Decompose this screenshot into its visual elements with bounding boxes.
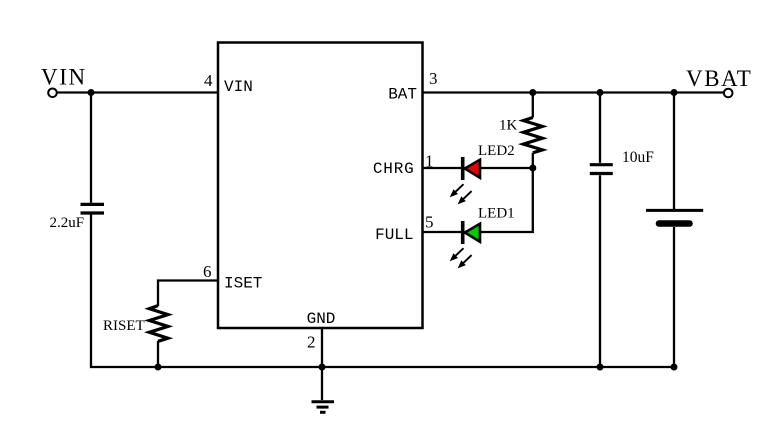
wire 1K top lead — [532, 93, 534, 118]
junction dot 1K/BAT — [529, 89, 536, 96]
wire BAT output — [423, 91, 725, 93]
svg-text:GND: GND — [307, 310, 336, 328]
terminal VBAT — [724, 89, 733, 98]
svg-text:ISET: ISET — [224, 275, 262, 293]
LED2 emission arrows — [450, 184, 472, 204]
capacitor C2 10uF plates — [590, 165, 613, 174]
junction dot battery/BAT — [671, 89, 678, 96]
LED2 body — [465, 160, 480, 178]
wire LED1 anode riser — [480, 168, 533, 232]
svg-text:BAT: BAT — [388, 86, 417, 104]
svg-text:LED2: LED2 — [478, 143, 515, 159]
svg-text:FULL: FULL — [375, 226, 413, 244]
wire 1K bottom lead — [532, 153, 534, 168]
junction dot C2/bus — [597, 364, 604, 371]
wire battery top lead — [673, 93, 675, 210]
wire ISET pin 6 — [158, 281, 218, 307]
svg-text:1K: 1K — [499, 118, 518, 134]
wire left rail lower — [91, 215, 158, 368]
battery BT1 negative plate — [659, 220, 690, 227]
terminal VIN — [48, 89, 57, 98]
svg-text:4: 4 — [204, 71, 213, 90]
svg-text:CHRG: CHRG — [373, 160, 415, 178]
IC U1 body — [218, 43, 423, 329]
svg-text:2: 2 — [307, 333, 316, 352]
svg-text:RISET: RISET — [103, 318, 145, 334]
svg-text:VBAT: VBAT — [686, 66, 752, 91]
svg-text:3: 3 — [429, 69, 438, 88]
svg-text:LED1: LED1 — [478, 206, 515, 222]
LED2 cathode bar — [461, 157, 465, 180]
capacitor C1 2.2uF plates — [81, 204, 105, 213]
svg-text:5: 5 — [425, 213, 434, 232]
node VIN junction dot — [88, 89, 95, 96]
LED1 emission arrows — [450, 248, 472, 268]
wire FULL pin 5 — [423, 231, 462, 233]
wire VIN input — [57, 91, 219, 93]
svg-text:10uF: 10uF — [622, 149, 654, 166]
resistor R1 1K — [523, 118, 542, 153]
junction dot battery/bus — [671, 364, 678, 371]
wire CHRG pin 1 — [423, 167, 462, 169]
LED1 body — [465, 224, 480, 242]
junction dot 1K/LED2 — [529, 165, 536, 172]
svg-text:6: 6 — [203, 262, 212, 281]
wire 10uF top lead — [599, 93, 601, 163]
wire LED2 anode to node — [480, 167, 533, 169]
junction dot C2/BAT — [597, 89, 604, 96]
junction dot RISET/bus — [155, 364, 162, 371]
LED1 cathode bar — [461, 221, 465, 244]
wire bottom ground bus — [158, 366, 674, 368]
wire GND pin 2 — [321, 328, 323, 400]
battery BT1 positive plate — [646, 209, 703, 212]
svg-text:VIN: VIN — [224, 78, 253, 96]
ground symbol — [312, 402, 335, 413]
resistor RISET — [149, 306, 168, 342]
svg-text:VIN: VIN — [41, 65, 87, 90]
svg-text:2.2uF: 2.2uF — [50, 215, 85, 231]
svg-text:1: 1 — [425, 151, 434, 170]
wire left rail — [90, 93, 92, 203]
wire battery bottom lead — [673, 227, 675, 367]
wire RISET bottom lead — [157, 341, 159, 367]
junction dot GND/bus — [319, 364, 326, 371]
wire 10uF bottom lead — [599, 175, 601, 367]
